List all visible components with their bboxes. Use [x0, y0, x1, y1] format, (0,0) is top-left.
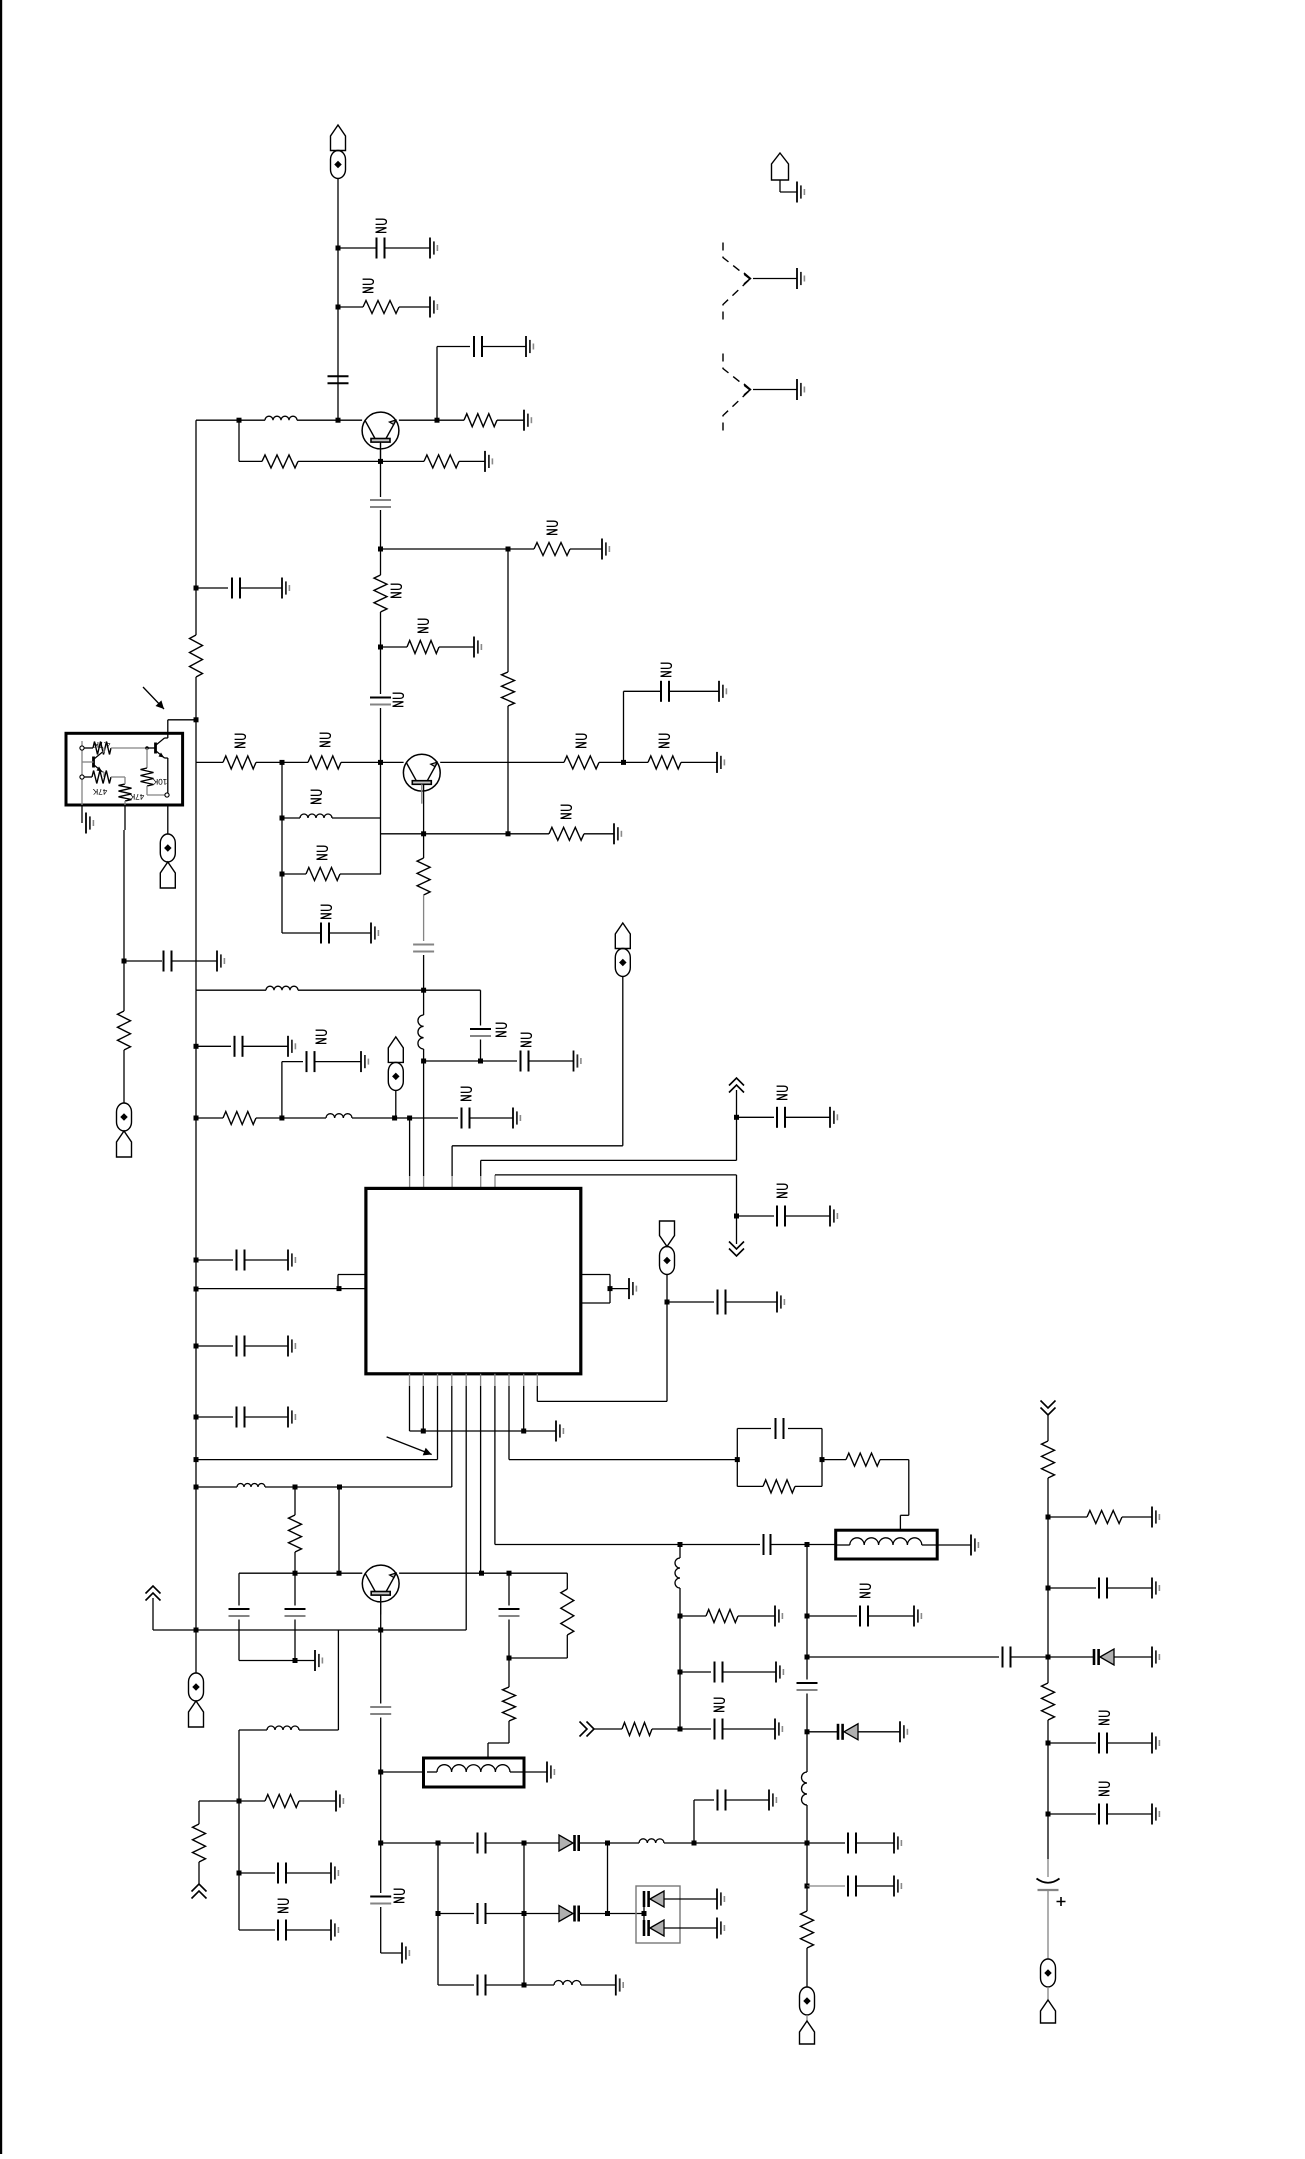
svg-text:10K: 10K [152, 777, 167, 786]
svg-text:47K: 47K [92, 787, 107, 796]
svg-text:4.7K: 4.7K [93, 740, 110, 749]
svg-text:47K: 47K [129, 792, 144, 801]
